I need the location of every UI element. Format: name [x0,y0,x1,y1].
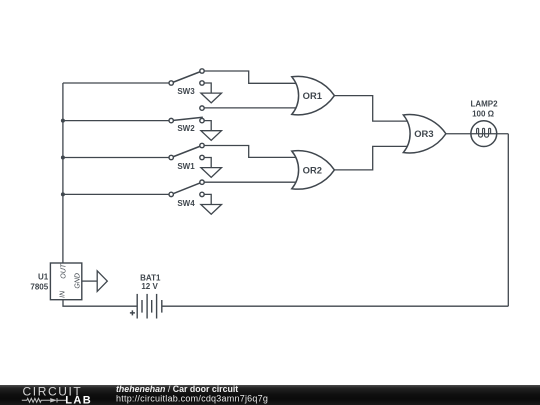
svg-text:SW3: SW3 [177,87,195,96]
wire bus vertical [62,83,64,263]
or-gate OR1 [292,76,335,114]
wire SW2 throw2 to ground stub [202,121,211,131]
svg-text:SW1: SW1 [177,162,195,171]
wire OR1 output to OR3 input A [334,96,408,122]
svg-text:U1: U1 [38,273,49,282]
wire right rail down to bottom rail [507,134,509,306]
svg-text:http://circuitlab.com/cdq3amn7: http://circuitlab.com/cdq3amn7j6q7g [116,393,268,403]
ground at U1 GND pin [97,271,107,292]
wire SW4 throw1 to OR2 input B [202,181,296,183]
svg-text:OR3: OR3 [414,128,433,139]
regulator U1 7805 [30,263,81,300]
ground below SW4 [201,205,222,215]
ground below SW3 [201,93,222,103]
wire SW2 throw1 to OR1 input B [202,107,296,109]
svg-text:IN: IN [60,290,67,298]
or-gate OR2 [292,151,335,189]
svg-text:LAMP2: LAMP2 [470,99,498,108]
battery BAT1 [130,273,162,318]
node junction row4 [61,192,65,196]
svg-text:OUT: OUT [61,263,68,279]
lamp LAMP2 [470,99,498,146]
footer bar [0,385,540,405]
svg-text:SW4: SW4 [177,199,195,208]
wire U1 IN to battery positive [63,300,137,307]
wire row2 to SW2 [63,120,171,122]
svg-text:SW2: SW2 [177,124,195,133]
ground below SW2 [201,131,222,141]
svg-text:OR2: OR2 [303,164,322,175]
ground below SW1 [201,168,222,178]
node junction row2 [61,119,65,123]
switch SW2 [169,106,204,133]
wire SW4 throw2 to ground stub [202,194,211,204]
wire SW1 throw1 to OR2 input A [202,146,296,158]
svg-text:OR1: OR1 [303,90,322,101]
battery plus sign [130,310,135,315]
switch SW3 [169,69,204,96]
wire OR2 output to OR3 input B [334,146,408,170]
svg-text:12 V: 12 V [141,282,158,291]
wire row3 to SW1 [63,157,171,159]
wire row1 to SW3 [63,82,171,84]
wire SW3 throw2 to ground stub [202,83,211,93]
or-gate OR3 [403,115,446,153]
wire SW3 throw1 to OR1 input A [202,71,296,83]
switch SW4 [169,180,204,208]
logo resistor zigzag and diode [22,398,67,402]
switch SW1 [169,143,204,171]
wire SW1 throw2 to ground stub [202,158,211,168]
svg-text:7805: 7805 [30,282,48,291]
svg-text:100 Ω: 100 Ω [472,110,495,119]
wire row4 to SW4 [63,193,171,195]
svg-text:LAB: LAB [65,394,92,405]
node junction row3 [61,156,65,160]
wire OR3 output through LAMP2 to right rail [446,133,508,135]
wire U1 GND to ground [82,280,97,282]
svg-text:GND: GND [75,273,82,289]
wire battery negative to right rail [162,305,509,307]
